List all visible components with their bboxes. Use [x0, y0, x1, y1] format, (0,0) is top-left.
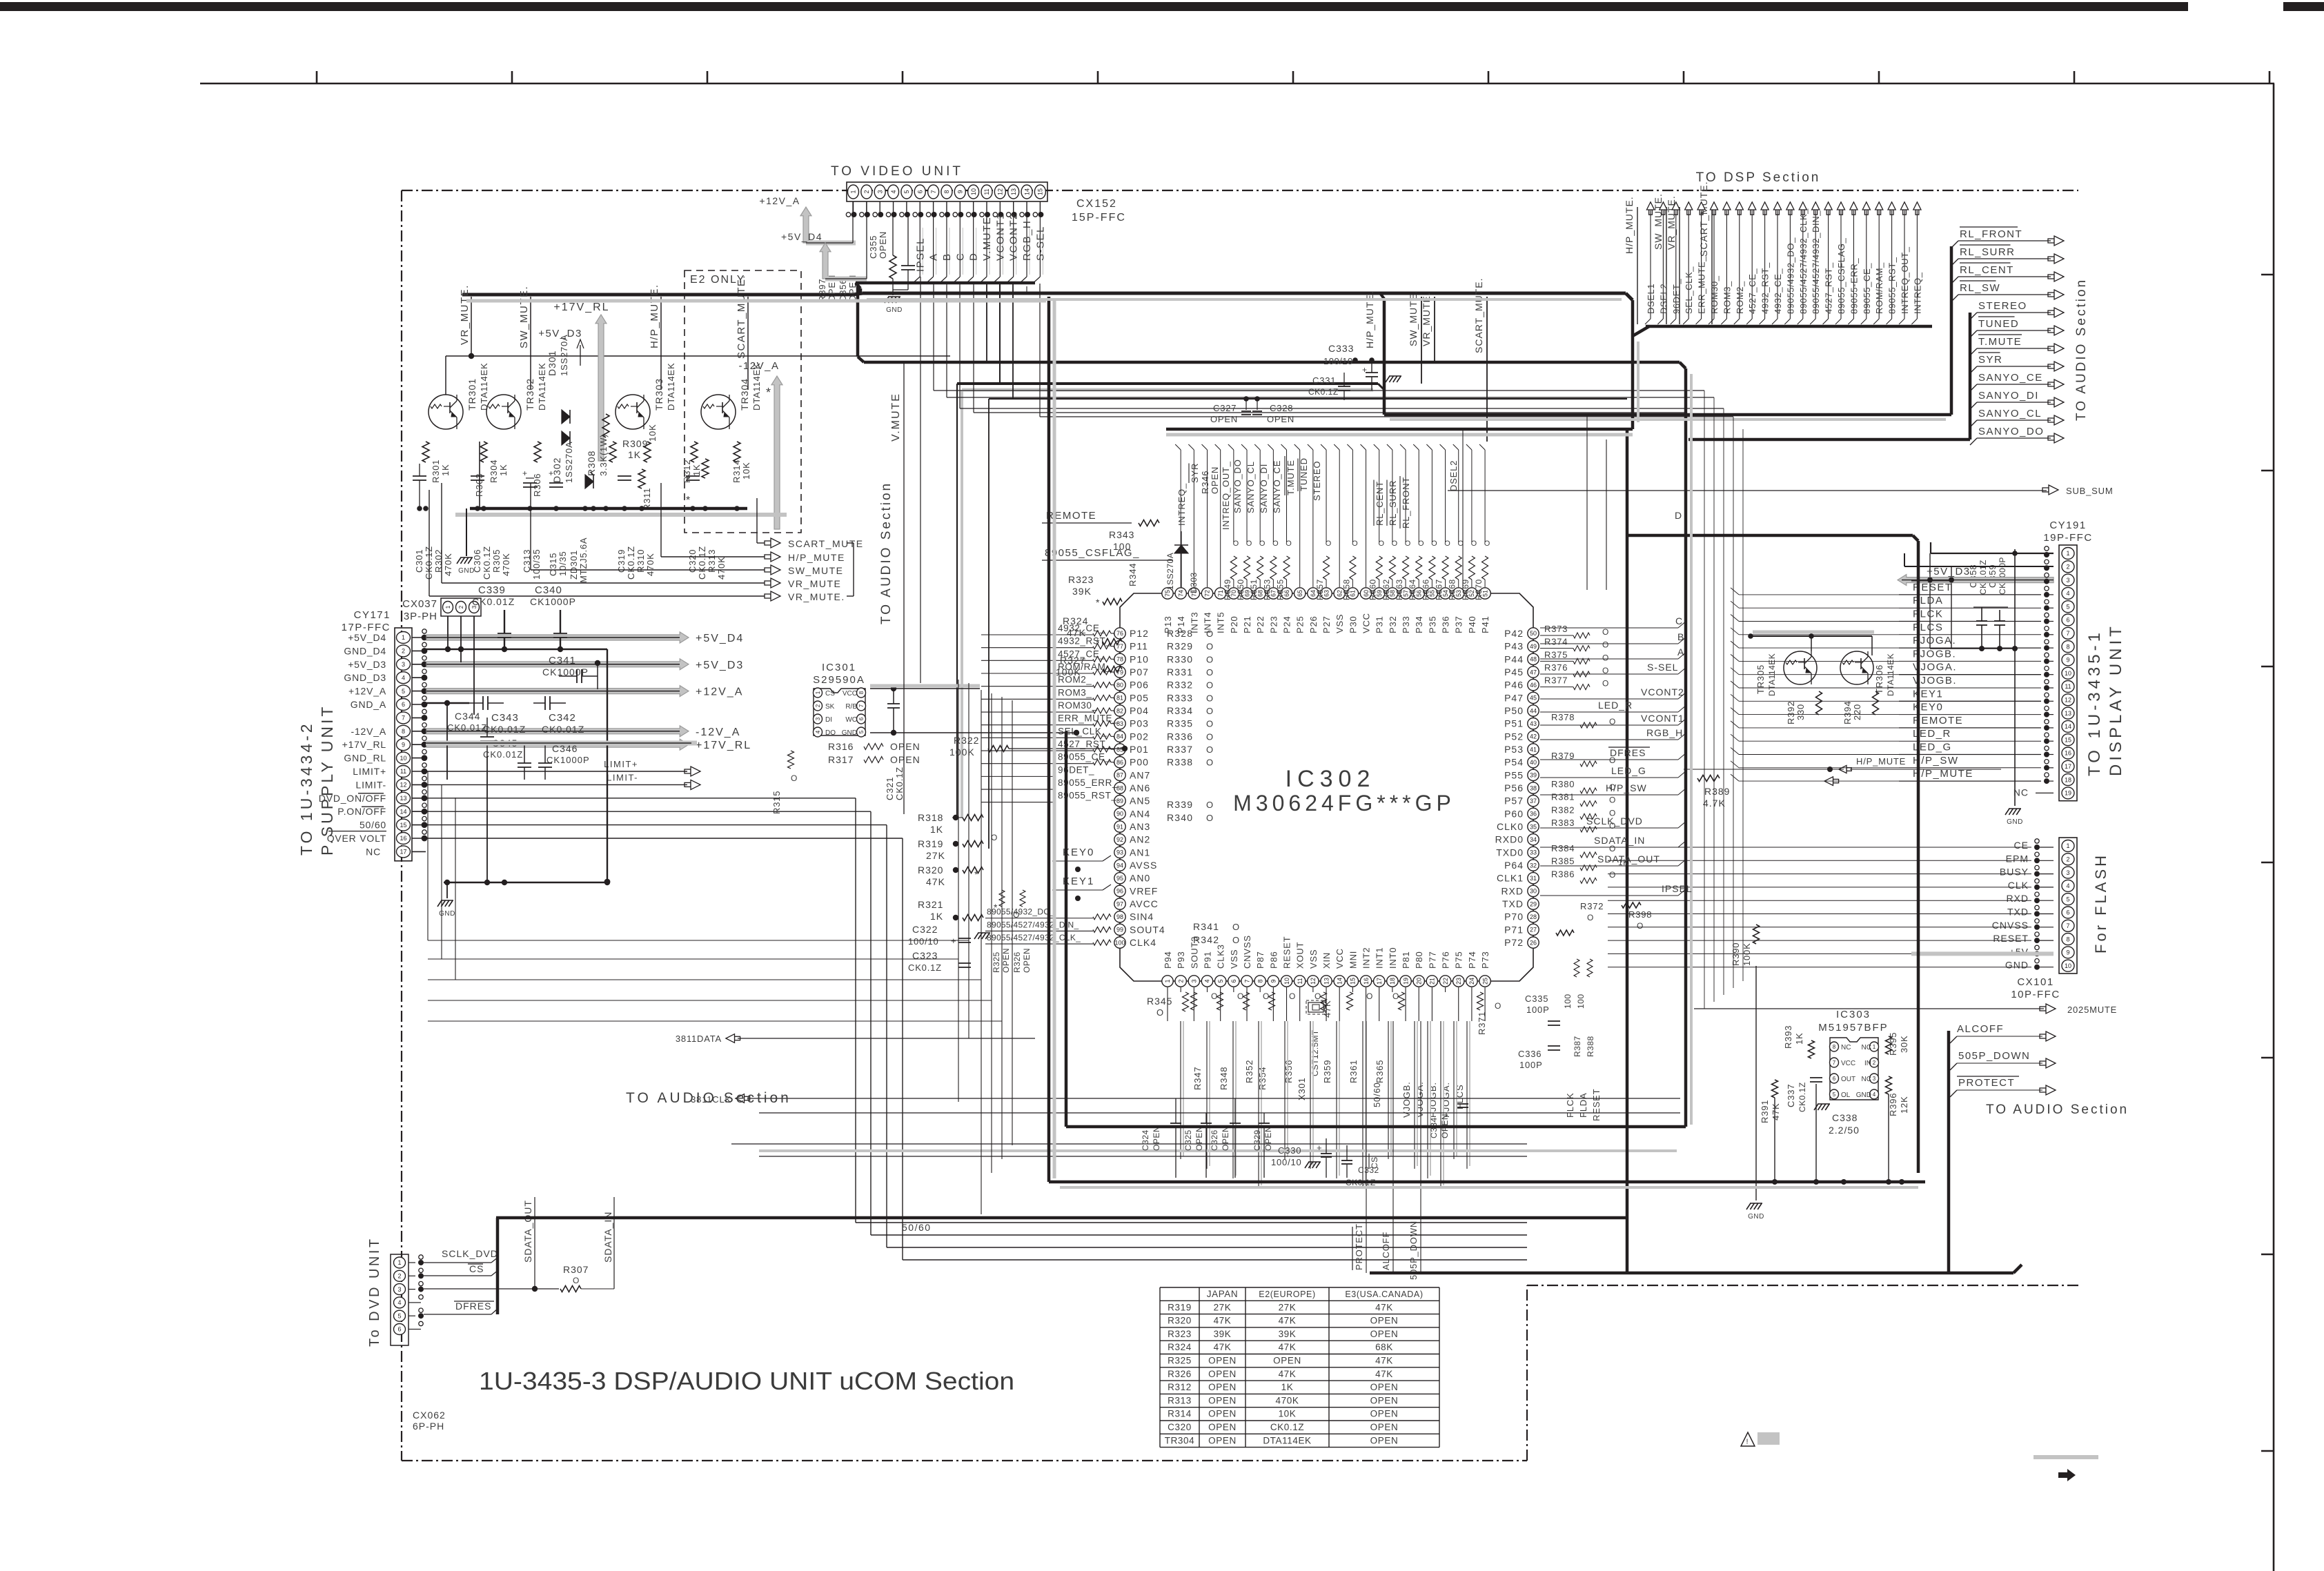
svg-text:39: 39: [1530, 772, 1537, 779]
svg-text:O: O: [1602, 666, 1610, 675]
svg-text:SCART_MUTE.: SCART_MUTE.: [1473, 277, 1484, 353]
svg-text:MNI: MNI: [1348, 951, 1358, 969]
svg-text:INT5: INT5: [1216, 612, 1226, 633]
svg-text:O: O: [1206, 758, 1214, 768]
svg-text:+: +: [1362, 365, 1368, 375]
svg-text:R366: R366: [1421, 579, 1430, 600]
svg-text:P91: P91: [1203, 951, 1213, 969]
svg-text:CX062: CX062: [413, 1410, 446, 1421]
svg-text:TXD0: TXD0: [1496, 847, 1524, 858]
svg-text:DISPLAY UNIT: DISPLAY UNIT: [2107, 623, 2125, 776]
svg-text:ZD301: ZD301: [569, 550, 579, 580]
svg-text:11: 11: [400, 768, 406, 775]
wire GND collector bus CY171: [444, 882, 607, 884]
svg-text:1: 1: [397, 1259, 401, 1266]
wires bottom pins down: [1167, 987, 1168, 1021]
svg-text:ALCOFF: ALCOFF: [1381, 1232, 1391, 1270]
svg-text:C325: C325: [1183, 1129, 1193, 1151]
svg-text:R319: R319: [1168, 1302, 1192, 1312]
svg-text:47K: 47K: [1375, 1356, 1393, 1366]
svg-text:100P: 100P: [1526, 1005, 1550, 1015]
wire bus y637: [1688, 438, 1970, 442]
svg-text:O: O: [1609, 796, 1617, 805]
wire top pin 64: [1312, 450, 1314, 587]
svg-text:50/60: 50/60: [1372, 1082, 1382, 1107]
svg-text:8: 8: [1833, 1044, 1836, 1050]
svg-text:P32: P32: [1388, 615, 1398, 633]
wire bus x2443 vertical (D net): [1684, 368, 1688, 1127]
svg-text:O: O: [791, 773, 798, 783]
wire top pin 72: [1207, 450, 1208, 587]
svg-text:SANYO_CL: SANYO_CL: [1245, 461, 1256, 513]
svg-text:CLK3: CLK3: [1216, 944, 1226, 969]
svg-text:TUNED: TUNED: [1978, 318, 2019, 330]
CY171 DVD_ON/OFF overline: [358, 793, 384, 794]
wire/arrow 4932_CE_ to DSP: [1777, 210, 1778, 319]
wire/arrow ERR_MUTE_ to DSP: [1701, 210, 1702, 319]
svg-text:2.2/50: 2.2/50: [1829, 1125, 1860, 1136]
svg-text:3: 3: [876, 190, 883, 193]
svg-text:VJOGB.: VJOGB.: [1401, 1082, 1412, 1118]
svg-text:15P-FFC: 15P-FFC: [1072, 212, 1126, 224]
svg-text:8: 8: [1257, 979, 1263, 982]
svg-text:R321: R321: [918, 899, 943, 910]
svg-text:R301: R301: [431, 460, 441, 483]
svg-text:LIMIT+: LIMIT+: [353, 766, 386, 777]
svg-text:1: 1: [445, 605, 451, 609]
svg-text:4932_RST_: 4932_RST_: [1760, 262, 1771, 314]
svg-text:18: 18: [2065, 776, 2071, 783]
svg-text:1: 1: [402, 634, 405, 641]
svg-text:O: O: [1206, 693, 1214, 703]
svg-text:OPEN: OPEN: [1210, 466, 1220, 494]
svg-text:C356: C356: [838, 279, 848, 302]
wires from left labels to vertical bus: [981, 634, 1056, 635]
svg-text:10/35: 10/35: [558, 551, 568, 576]
svg-text:R372: R372: [1580, 901, 1604, 911]
svg-text:R349: R349: [1223, 579, 1232, 600]
svg-text:C337: C337: [1786, 1084, 1796, 1107]
svg-text:R370: R370: [1474, 579, 1484, 600]
power arrow +12V_A (CX152): [800, 207, 811, 243]
wire/arrow SEL_CLK_ to DSP: [1688, 210, 1689, 319]
svg-text:9: 9: [957, 190, 964, 193]
svg-text:C323: C323: [912, 950, 938, 961]
svg-text:OPEN: OPEN: [1022, 948, 1032, 973]
connector CY191 19P-FFC: [2059, 545, 2077, 801]
transistor block top rail: [446, 355, 950, 357]
svg-text:TR303: TR303: [653, 378, 664, 411]
svg-text:IPSEL: IPSEL: [1662, 883, 1693, 894]
svg-text:LIMIT-: LIMIT-: [356, 779, 386, 790]
svg-text:47K: 47K: [1279, 1369, 1297, 1379]
svg-text:R331: R331: [1167, 666, 1193, 678]
svg-text:IN: IN: [1864, 1060, 1871, 1067]
svg-text:S-SEL: S-SEL: [1647, 662, 1678, 673]
svg-text:P05: P05: [1130, 692, 1149, 703]
svg-text:X301: X301: [1297, 1077, 1307, 1100]
svg-text:9: 9: [2066, 657, 2069, 664]
svg-text:VCC: VCC: [1361, 613, 1372, 633]
svg-text:P35: P35: [1427, 615, 1437, 633]
svg-text:89055_CE_: 89055_CE_: [1862, 263, 1872, 314]
svg-text:OPEN: OPEN: [1267, 414, 1294, 424]
svg-text:R379: R379: [1551, 751, 1575, 761]
svg-text:P36: P36: [1441, 615, 1451, 633]
resistor R355 (pull): [1283, 556, 1290, 580]
svg-text:CX101: CX101: [2017, 976, 2054, 988]
svg-text:C336: C336: [1518, 1049, 1542, 1059]
svg-text:TR304: TR304: [739, 378, 750, 411]
resistor R367 (pull): [1442, 556, 1448, 580]
svg-text:+: +: [522, 468, 529, 478]
resistor R368 (pull): [1455, 556, 1461, 580]
resistor R392 330: [1816, 691, 1822, 715]
svg-text:2: 2: [863, 190, 870, 193]
svg-text:P03: P03: [1130, 718, 1149, 729]
svg-text:DTA114EK: DTA114EK: [479, 362, 489, 411]
wire/arrow INTREQ_OUT_ to DSP: [1904, 210, 1905, 319]
svg-text:45: 45: [1530, 695, 1537, 702]
wire thick y556: [999, 284, 1001, 384]
svg-text:10: 10: [400, 755, 406, 762]
svg-text:R363: R363: [1395, 579, 1404, 600]
wire DSEL2 vertical: [1462, 429, 1464, 590]
svg-text:C301: C301: [414, 549, 424, 573]
svg-text:R360: R360: [1368, 579, 1378, 600]
svg-text:9: 9: [402, 741, 405, 748]
svg-text:94: 94: [1116, 862, 1123, 869]
svg-text:CK0.01Z: CK0.01Z: [483, 724, 526, 735]
svg-text:15: 15: [1350, 978, 1357, 985]
svg-text:1: 1: [1873, 1044, 1876, 1050]
svg-text:RGB_H: RGB_H: [1646, 727, 1683, 738]
svg-text:AN0: AN0: [1130, 873, 1150, 884]
svg-text:OPEN: OPEN: [1370, 1435, 1399, 1445]
svg-text:M51957BFP: M51957BFP: [1818, 1022, 1888, 1034]
svg-text:R387: R387: [1573, 1036, 1582, 1057]
power rail gray arrows from CY171: [426, 632, 689, 643]
power arrow +5V_D3 small: [580, 345, 581, 366]
svg-text:AN1: AN1: [1130, 847, 1150, 858]
svg-text:12: 12: [997, 188, 1004, 195]
IC302 top pins: [1162, 588, 1173, 599]
svg-text:96DET_: 96DET_: [1058, 764, 1094, 775]
svg-text:470K: 470K: [1276, 1395, 1299, 1405]
svg-text:SANYO_CE: SANYO_CE: [1272, 460, 1282, 513]
page top bar: [0, 2, 2188, 11]
svg-text:C315: C315: [548, 553, 558, 576]
svg-text:R398: R398: [1628, 909, 1652, 920]
svg-text:R341: R341: [1193, 921, 1219, 932]
svg-text:SANYO_CE: SANYO_CE: [1978, 372, 2043, 384]
svg-text:R317: R317: [828, 754, 854, 765]
svg-text:50/60: 50/60: [360, 820, 386, 831]
svg-text:89055_CSFLAG_: 89055_CSFLAG_: [1045, 547, 1140, 559]
svg-text:CX152: CX152: [1076, 198, 1117, 210]
svg-text:CNVSS: CNVSS: [1242, 935, 1252, 969]
svg-text:C335: C335: [1525, 994, 1548, 1004]
svg-text:220: 220: [1852, 704, 1862, 720]
svg-text:4527_CE_: 4527_CE_: [1747, 268, 1757, 314]
svg-text:48: 48: [1530, 656, 1537, 663]
svg-text:CX037: CX037: [402, 598, 437, 610]
svg-text:C319: C319: [616, 549, 627, 573]
svg-text:INTREQ_: INTREQ_: [1176, 483, 1187, 526]
svg-text:P54: P54: [1504, 757, 1524, 768]
svg-text:30K: 30K: [1899, 1035, 1909, 1053]
svg-text:GND: GND: [2005, 960, 2029, 971]
svg-text:INTREQ_OUT_: INTREQ_OUT_: [1900, 246, 1910, 314]
wire/arrow INTREQ_ to DSP: [1916, 210, 1918, 319]
svg-text:AN2: AN2: [1130, 834, 1150, 845]
svg-text:R385: R385: [1551, 856, 1575, 867]
svg-text:P04: P04: [1130, 705, 1149, 716]
svg-text:TXD: TXD: [1502, 898, 1524, 909]
svg-text:OPEN: OPEN: [1208, 1409, 1237, 1419]
svg-text:R/B: R/B: [845, 703, 857, 711]
svg-text:6: 6: [2066, 617, 2069, 624]
svg-text:SOUT4: SOUT4: [1130, 924, 1165, 935]
capacitor C301 CK0.1Z: [413, 475, 426, 477]
svg-text:46: 46: [1530, 682, 1537, 689]
svg-text:O: O: [1609, 782, 1617, 792]
svg-text:44: 44: [1530, 707, 1537, 714]
svg-text:24: 24: [1468, 978, 1475, 985]
svg-text:OPEN: OPEN: [1208, 1395, 1237, 1405]
svg-text:VR_MUTE: VR_MUTE: [788, 578, 841, 589]
signal arrow SW_MUTE: [530, 483, 531, 570]
svg-text:4527_RST_: 4527_RST_: [1824, 262, 1834, 314]
CX152 signal lines and rotated labels: [922, 228, 923, 275]
svg-text:2: 2: [1873, 1060, 1876, 1066]
E2 ONLY dashed box: [685, 270, 801, 533]
svg-text:AN6: AN6: [1130, 782, 1150, 793]
svg-text:SEL_CLK_: SEL_CLK_: [1684, 266, 1694, 314]
svg-text:R369: R369: [1461, 579, 1470, 600]
svg-text:O: O: [1609, 821, 1617, 831]
wire/arrow 4527_RST_ to DSP: [1828, 210, 1829, 319]
svg-text:R342: R342: [1193, 934, 1219, 945]
svg-text:5: 5: [2066, 896, 2069, 902]
svg-text:*: *: [974, 869, 979, 880]
svg-text:R392: R392: [1786, 701, 1796, 724]
svg-text:P56: P56: [1504, 782, 1524, 793]
svg-text:R376: R376: [1544, 662, 1568, 673]
svg-text:C339: C339: [478, 584, 506, 596]
svg-text:+17V_RL: +17V_RL: [696, 740, 751, 751]
wire CX152 collector bus (thick): [856, 281, 1035, 285]
svg-text:VCC: VCC: [1841, 1060, 1855, 1067]
resistor R394 220: [1873, 691, 1879, 715]
svg-text:C327: C327: [1213, 403, 1237, 413]
svg-text:RESET: RESET: [1282, 936, 1292, 969]
svg-text:INT2: INT2: [1361, 947, 1372, 969]
svg-text:P07: P07: [1130, 666, 1149, 678]
resistor R357 (pull): [1323, 556, 1330, 580]
svg-text:STEREO: STEREO: [1312, 461, 1322, 501]
svg-text:3: 3: [2066, 577, 2069, 584]
svg-text:R307: R307: [563, 1264, 589, 1275]
svg-text:R365: R365: [1375, 1060, 1385, 1083]
svg-text:1: 1: [2066, 550, 2069, 557]
svg-text:*: *: [766, 386, 772, 399]
wire/arrow 89055_CSFLAG_ to DSP: [1840, 210, 1842, 319]
svg-text:GND_A: GND_A: [351, 699, 386, 710]
svg-text:PROTECT: PROTECT: [1354, 1223, 1364, 1270]
svg-text:NC: NC: [2013, 787, 2029, 798]
wire gray shadow x2443: [1690, 374, 1693, 1125]
svg-text:6: 6: [916, 190, 923, 193]
capacitor C320 CK0.1Z: [686, 475, 700, 477]
svg-text:1K: 1K: [1281, 1382, 1294, 1392]
svg-text:3: 3: [397, 1286, 401, 1293]
svg-text:A: A: [928, 253, 940, 261]
wire gray shadow y427: [466, 299, 1046, 303]
svg-text:GND: GND: [1748, 1213, 1764, 1221]
resistor R309 1K: [609, 442, 616, 462]
svg-text:O: O: [573, 1276, 580, 1285]
svg-text:47K: 47K: [1771, 1103, 1781, 1120]
svg-text:3: 3: [402, 661, 405, 668]
svg-text:ALCOFF: ALCOFF: [1957, 1023, 2004, 1035]
svg-text:84: 84: [1116, 733, 1123, 740]
resistor R304 1K: [480, 442, 487, 462]
svg-text:89055-ERR_: 89055-ERR_: [1849, 258, 1859, 314]
svg-text:JAPAN: JAPAN: [1207, 1289, 1239, 1299]
svg-text:CK0.1Z: CK0.1Z: [1308, 387, 1339, 397]
svg-text:RESET: RESET: [1591, 1089, 1602, 1121]
svg-text:DO: DO: [825, 729, 836, 737]
svg-text:GND_D3: GND_D3: [344, 672, 386, 683]
svg-text:P12: P12: [1130, 628, 1149, 639]
svg-text:1K: 1K: [691, 464, 702, 476]
svg-text:CK0.01Z: CK0.01Z: [542, 724, 584, 735]
svg-text:REMOTE: REMOTE: [1913, 715, 1963, 727]
svg-text:RL_SURR: RL_SURR: [1960, 246, 2016, 258]
svg-text:XIN: XIN: [1321, 952, 1332, 969]
svg-text:P76: P76: [1441, 951, 1451, 969]
IC302 bottom pins: [1162, 976, 1173, 987]
svg-text:2025MUTE: 2025MUTE: [2067, 1005, 2117, 1015]
svg-text:27: 27: [1530, 927, 1537, 933]
wire DVD_ON/OFF to lower bus: [426, 798, 856, 799]
svg-text:3811DATA: 3811DATA: [676, 1034, 722, 1044]
svg-text:R316: R316: [828, 741, 854, 752]
IC IC302 M30624FG**GP body: [1120, 593, 1533, 981]
svg-text:16: 16: [400, 835, 406, 842]
svg-text:R329: R329: [1167, 641, 1193, 652]
long line y1592: [747, 1098, 1680, 1099]
svg-text:81: 81: [1116, 695, 1123, 702]
svg-text:R397: R397: [817, 279, 827, 302]
svg-text:P46: P46: [1504, 680, 1524, 691]
svg-text:SANYO_DO: SANYO_DO: [1978, 426, 2044, 437]
svg-text:TUNED: TUNED: [1299, 457, 1309, 491]
svg-text:6: 6: [1230, 979, 1237, 982]
resistor R312 1K: [691, 442, 698, 462]
svg-text:R338: R338: [1167, 757, 1193, 768]
svg-text:15: 15: [2065, 736, 2071, 743]
wire LIMIT- line: [426, 784, 687, 785]
svg-text:SANYO_DI: SANYO_DI: [1259, 464, 1269, 513]
svg-text:12: 12: [2065, 697, 2071, 704]
svg-text:27K: 27K: [1214, 1302, 1232, 1312]
left edge verticals from CY171 region: [427, 771, 429, 940]
svg-text:75: 75: [1164, 590, 1171, 597]
svg-text:1K: 1K: [1794, 1032, 1804, 1045]
svg-text:TO AUDIO Section: TO AUDIO Section: [879, 482, 894, 624]
svg-text:R389: R389: [1704, 786, 1730, 797]
svg-text:27K: 27K: [926, 850, 945, 861]
svg-text:CS: CS: [825, 690, 835, 698]
svg-text:OPEN: OPEN: [878, 231, 888, 259]
svg-text:P53: P53: [1504, 744, 1524, 755]
svg-text:47K: 47K: [1214, 1316, 1232, 1326]
svg-text:H/P_MUTE: H/P_MUTE: [1913, 768, 1973, 780]
svg-text:CY171: CY171: [354, 609, 391, 621]
svg-text:OPEN: OPEN: [1370, 1329, 1399, 1339]
svg-text:R324: R324: [1063, 615, 1088, 626]
svg-text:H/P_MUTE.: H/P_MUTE.: [649, 284, 660, 348]
svg-text:O: O: [1637, 921, 1644, 931]
svg-text:P42: P42: [1504, 628, 1524, 639]
svg-text:GND: GND: [458, 567, 475, 575]
svg-text:SW_MUTE.: SW_MUTE.: [518, 286, 530, 348]
wire x2006 vertical (H/P_MUTE. feed): [1383, 299, 1386, 415]
svg-text:3: 3: [2066, 869, 2069, 876]
svg-text:+5V_D3: +5V_D3: [696, 660, 744, 671]
svg-text:E2(EUROPE): E2(EUROPE): [1259, 1290, 1315, 1299]
svg-text:For FLASH: For FLASH: [2092, 853, 2109, 954]
svg-text:OPEN: OPEN: [1221, 1126, 1230, 1151]
svg-text:1SS270A: 1SS270A: [559, 334, 569, 376]
svg-text:VJOGA.: VJOGA.: [1415, 1082, 1425, 1118]
svg-text:SCART_MUTE: SCART_MUTE: [788, 538, 864, 549]
resistor R313 470K: [702, 459, 709, 478]
signal arrow TUNED: [1970, 330, 1977, 337]
svg-text:SYR: SYR: [1978, 354, 2002, 366]
svg-text:R361: R361: [1348, 1060, 1359, 1083]
svg-text:4: 4: [402, 674, 405, 681]
svg-text:R357: R357: [1315, 579, 1325, 600]
svg-text:6: 6: [2066, 909, 2069, 916]
svg-text:P57: P57: [1504, 796, 1524, 807]
svg-text:ROM30_: ROM30_: [1058, 700, 1098, 711]
svg-text:LIMIT-: LIMIT-: [607, 772, 638, 782]
svg-text:H/P_MUTE.: H/P_MUTE.: [1624, 196, 1635, 254]
svg-text:9: 9: [1270, 979, 1277, 982]
wire gray shadow y425: [867, 298, 1622, 301]
wire thick x721 down to DVD: [496, 1218, 500, 1314]
svg-text:-12V_A: -12V_A: [351, 726, 387, 737]
svg-text:R375: R375: [1544, 649, 1568, 660]
vertical thin wires left of IC: [981, 690, 982, 1214]
diode D301 1SS270A: [562, 410, 570, 424]
svg-text:5: 5: [2066, 603, 2069, 610]
svg-text:P11: P11: [1130, 641, 1148, 652]
wire IC301 VCC rail: [870, 688, 980, 689]
svg-text:+5V_D3: +5V_D3: [1927, 566, 1971, 577]
svg-text:P60: P60: [1504, 808, 1524, 819]
wire jog at x2000: [1380, 293, 1384, 299]
transistor TR301 DTA114EK: [429, 395, 463, 429]
svg-text:P21: P21: [1242, 615, 1252, 633]
svg-text:OPEN: OPEN: [1370, 1409, 1399, 1419]
ground small bottom: [1305, 1162, 1309, 1168]
svg-text:23: 23: [1455, 978, 1462, 985]
svg-text:10K: 10K: [741, 462, 751, 480]
